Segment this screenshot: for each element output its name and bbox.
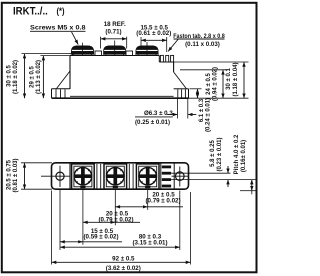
side view baseplate bottom — [52, 97, 189, 99]
dimension 6.1 — [197, 89, 199, 98]
side view left gusset — [57, 71, 71, 89]
svg-text:Screws M5 x 0.8: Screws M5 x 0.8 — [30, 25, 86, 32]
plan view 20.5 extension lines — [21, 162, 52, 164]
tab bump 2 — [126, 51, 133, 56]
screw 2 — [107, 167, 125, 188]
svg-text:(1.13 ± 0.02): (1.13 ± 0.02) — [36, 60, 42, 94]
svg-text:(0.25 ± 0.01): (0.25 ± 0.01) — [135, 119, 170, 126]
svg-text:(1.18 ± 0.02): (1.18 ± 0.02) — [13, 60, 19, 94]
plan view body outline — [52, 163, 189, 189]
svg-text:30 ± 0.5: 30 ± 0.5 — [7, 65, 13, 87]
leader screw 2 — [114, 190, 116, 226]
side view top-left lip — [70, 53, 73, 55]
side view left flange — [52, 88, 71, 90]
leader hole left — [59, 190, 61, 251]
extension line bottom right — [189, 97, 249, 99]
gap lines 1 — [96, 164, 98, 189]
svg-text:(0.71): (0.71) — [105, 28, 121, 35]
side view left wall — [69, 56, 71, 90]
mounting slot projection lines — [177, 99, 179, 119]
leader body left — [51, 191, 53, 265]
side view right flange — [174, 88, 189, 90]
extension line 6.1 dim — [190, 88, 202, 90]
terminal block 1 — [72, 164, 95, 189]
svg-text:(0.59 ± 0.02): (0.59 ± 0.02) — [83, 234, 118, 241]
dimension 24 +/- 0.5 — [222, 70, 224, 98]
dimension pitch 4.0 — [251, 180, 253, 191]
leader body right — [190, 192, 192, 265]
svg-text:(0.23 ± 0.01): (0.23 ± 0.01) — [217, 138, 223, 172]
screw 1 — [74, 167, 92, 188]
divider right — [173, 163, 175, 189]
tab pitch extension line 2 — [171, 179, 255, 181]
dimension 20.5 +/- 0.75 — [24, 163, 26, 189]
leader screw 3 — [147, 190, 149, 210]
svg-text:(0.61 ± 0.02): (0.61 ± 0.02) — [136, 30, 171, 37]
dimension 30 +/- 0.1 right — [243, 62, 245, 98]
side view body top surface — [70, 55, 159, 57]
svg-text:5.8 ± 0.25: 5.8 ± 0.25 — [210, 140, 216, 167]
leader screw 1 — [82, 190, 84, 245]
svg-text:92 ± 0.5: 92 ± 0.5 — [112, 255, 135, 262]
svg-text:(0.11 x 0.03): (0.11 x 0.03) — [185, 41, 220, 48]
mounting hole left — [56, 172, 64, 180]
svg-text:24 ± 0.5: 24 ± 0.5 — [206, 73, 212, 95]
svg-text:(0.79 ± 0.02): (0.79 ± 0.02) — [145, 197, 180, 204]
dimension 30 +/- 0.5 left — [24, 54, 26, 99]
svg-text:(3.62 ± 0.02): (3.62 ± 0.02) — [106, 265, 141, 272]
screw 3 — [139, 167, 157, 188]
screw dome 1 — [71, 46, 95, 56]
gap lines 2 — [128, 164, 130, 189]
dimension slot 6.3 arrows — [167, 114, 178, 116]
svg-text:(0.94 ± 0.02): (0.94 ± 0.02) — [213, 67, 219, 101]
dimension 5.8 — [227, 166, 229, 173]
leader hole right — [179, 191, 181, 251]
plan view divider left — [69, 163, 71, 189]
svg-text:(1.18 ± 0.04): (1.18 ± 0.04) — [233, 63, 239, 97]
svg-text:6.1 ± 0.3: 6.1 ± 0.3 — [199, 98, 205, 122]
svg-text:Pitch 4.0 ± 0.2: Pitch 4.0 ± 0.2 — [234, 134, 240, 174]
svg-text:(*): (*) — [57, 6, 65, 16]
extension line right 30 dim — [174, 61, 249, 63]
tab pitch extension line 1 — [171, 172, 230, 174]
svg-text:(3.15 ± 0.01): (3.15 ± 0.01) — [132, 239, 167, 246]
side view: 30 dim extension line left — [22, 53, 71, 55]
svg-text:(0.79 ± 0.02): (0.79 ± 0.02) — [98, 217, 133, 224]
svg-text:(0.16± 0.01): (0.16± 0.01) — [241, 140, 247, 172]
dimension 20 upper (screw2-screw3) — [115, 206, 183, 208]
side view right wall — [173, 62, 175, 72]
terminal block 2 — [104, 164, 127, 189]
side view baseplate top line — [70, 95, 174, 97]
dimension 15 (hole-screw1) — [60, 241, 122, 243]
svg-text:IRKT../..: IRKT../.. — [13, 5, 48, 17]
svg-text:(0.24 ± 0.01): (0.24 ± 0.01) — [205, 98, 211, 132]
dimension 20 lower (screw1-screw2) — [83, 221, 140, 223]
faston tabs on shelf — [160, 55, 163, 62]
dimension 80 (hole-hole) — [60, 246, 180, 248]
svg-text:29 ± 0.5: 29 ± 0.5 — [30, 66, 36, 88]
screw dome 3 — [135, 46, 159, 56]
svg-text:30 ± 0.1: 30 ± 0.1 — [226, 68, 232, 90]
svg-text:18 REF.: 18 REF. — [104, 21, 126, 28]
dimension 92 overall — [52, 261, 191, 263]
tab bump 1 — [95, 51, 102, 56]
terminal block 3 — [136, 164, 159, 189]
svg-text:Ø6.3 ± 0.3: Ø6.3 ± 0.3 — [144, 110, 173, 117]
screw dome 2 — [103, 46, 127, 56]
dimension 29 +/- 0.5 left — [42, 56, 44, 99]
faston tabs plan — [162, 166, 171, 169]
svg-text:(0.81 ± 0.03): (0.81 ± 0.03) — [13, 159, 19, 193]
pitch lower reference line — [240, 190, 256, 192]
mounting hole right — [176, 172, 185, 181]
extension line right 24 dim — [180, 69, 228, 71]
tab section divider — [160, 163, 162, 189]
drawing frame border — [2, 3, 257, 273]
side view: 29 dim extension line left — [41, 55, 71, 57]
svg-text:20.5 ± 0.75: 20.5 ± 0.75 — [7, 159, 13, 190]
side view right gusset — [174, 72, 187, 89]
side view right shelf step — [158, 56, 160, 63]
